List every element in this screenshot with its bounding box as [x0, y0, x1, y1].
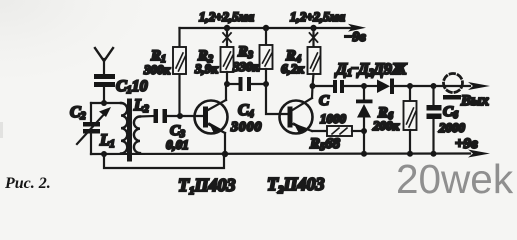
diode D1 (series, pointing right) [364, 79, 410, 95]
diode D2 (vertical, cathode up) [356, 86, 373, 154]
wire tank left upper [90, 103, 92, 123]
svg-text:330к: 330к [232, 59, 260, 74]
svg-text:3,9к: 3,9к [194, 61, 218, 76]
node bus/R3 [263, 25, 269, 31]
wire R6 to C6 [410, 85, 433, 87]
node bus/R2 [224, 25, 230, 31]
svg-text:−9в: −9в [344, 30, 366, 45]
svg-text:3000: 3000 [230, 120, 262, 135]
transistor T2 [280, 86, 328, 134]
arrow output [468, 82, 490, 90]
wire tank top [91, 102, 121, 104]
break symbol x on R4 wire [310, 33, 318, 42]
wire collector to C5 [313, 85, 334, 87]
capacitor C6 [427, 86, 442, 154]
wire -9V top bus [180, 27, 353, 29]
node C5 / D2 [361, 83, 367, 89]
svg-text:200к: 200к [372, 118, 400, 133]
svg-text:0,01: 0,01 [166, 137, 189, 152]
svg-text:2000: 2000 [438, 120, 466, 135]
capacitor C2 (variable) [77, 107, 111, 144]
resistor R6 [404, 86, 417, 154]
svg-text:Рис. 2.: Рис. 2. [4, 175, 51, 192]
resistor R2 [221, 28, 234, 84]
wire C3 to base T1 [167, 115, 203, 117]
node R6 / rail [407, 151, 413, 157]
node tank bottom [101, 151, 107, 157]
resistor R4 [308, 28, 321, 86]
antenna W1 [95, 48, 113, 74]
svg-text:Т2П403: Т2П403 [267, 174, 325, 196]
wire tank left lower [90, 133, 92, 154]
wire +9V bottom rail [91, 152, 470, 155]
node T1 emitter / rail [222, 151, 228, 157]
node base T1 / R1 [177, 113, 183, 119]
node C6 [431, 83, 437, 89]
transistor T1 [195, 84, 228, 154]
svg-text:1,2÷2,5ма: 1,2÷2,5ма [199, 9, 255, 24]
node C6 / rail [431, 151, 437, 157]
capacitor C4 [227, 77, 266, 91]
node D2 / rail [361, 151, 367, 157]
arrow +9V rail [468, 150, 490, 158]
svg-text:Т1П403: Т1П403 [178, 175, 236, 197]
svg-text:300к: 300к [143, 62, 171, 77]
node C4/R3 [263, 81, 269, 87]
resistor R5 (horizontal) [327, 126, 364, 136]
wire output [434, 85, 471, 87]
svg-text:Д9Ж: Д9Ж [371, 61, 408, 78]
capacitor C3 [154, 109, 168, 123]
arrow -9V bus [348, 24, 366, 32]
node tank top [101, 100, 107, 106]
svg-text:C110: C110 [116, 78, 148, 96]
wire R1 to base [178, 74, 180, 116]
capacitor C1 [94, 74, 115, 103]
capacitor C 1000 [333, 80, 364, 93]
node T2 collector / R4 [310, 83, 316, 89]
wire ground detour [104, 154, 224, 168]
phone jack symbol (dashed circle) [444, 74, 463, 93]
paper shading top-left [0, 0, 1, 1]
svg-text:Вых: Вых [460, 93, 489, 109]
node T1 collector / C4 [224, 81, 230, 87]
resistor R3 [260, 28, 273, 84]
break symbol x on R2 wire [223, 33, 231, 42]
inductor L1 [121, 103, 127, 153]
svg-text:1,2÷2,5ма: 1,2÷2,5ма [290, 9, 346, 24]
core of L1/L2 [127, 101, 132, 159]
node bus/R4 [310, 25, 316, 31]
paper shading left edge [0, 122, 3, 138]
resistor R1 [173, 28, 186, 74]
svg-text:1000: 1000 [320, 111, 347, 126]
inductor L2 [134, 117, 140, 154]
node D1 / R6 [407, 83, 413, 89]
wire L2 to C3 [140, 115, 154, 118]
svg-text:C: C [319, 93, 330, 109]
svg-text:20wek: 20wek [396, 156, 514, 202]
node R5 / D2 line [361, 128, 367, 134]
phone jack bar [443, 95, 461, 100]
svg-text:6,2к: 6,2к [281, 61, 304, 76]
svg-text:+9в: +9в [455, 136, 478, 152]
wire C4 to base T2 [266, 84, 287, 114]
svg-text:R568: R568 [309, 136, 341, 153]
